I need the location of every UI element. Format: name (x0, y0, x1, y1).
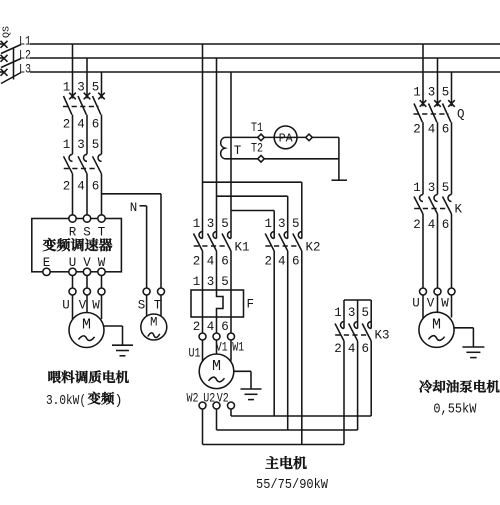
contactor K3 pin labels 2 4 6 (334, 342, 369, 356)
terminal labels U1 V1 W1 (189, 341, 245, 361)
svg-text:4: 4 (207, 255, 215, 269)
bus L2 (19, 49, 500, 63)
svg-text:V1: V1 (216, 341, 228, 355)
svg-text:W: W (441, 297, 449, 311)
svg-text:4: 4 (428, 218, 436, 232)
svg-text:1: 1 (63, 138, 71, 152)
svg-text:R: R (69, 226, 77, 240)
svg-text:W: W (92, 299, 100, 313)
caption 0,55kW (433, 402, 477, 417)
svg-text:6: 6 (221, 255, 229, 269)
svg-text:1: 1 (193, 217, 201, 231)
svg-text:2: 2 (193, 255, 201, 269)
motor terminal circles U V W (69, 288, 105, 295)
svg-text:V: V (427, 297, 435, 311)
svg-text:1: 1 (413, 86, 421, 100)
svg-text:T: T (234, 144, 242, 158)
breaker QF pin labels 2 4 6 (63, 118, 100, 132)
contactor K3 (star) (335, 322, 371, 342)
svg-text:F: F (247, 298, 255, 312)
svg-text:3: 3 (428, 86, 436, 100)
wires: terminals to motor M1 (73, 295, 102, 320)
contactor K2 pin labels 2 4 6 (264, 255, 299, 269)
wire: K2-6 down to W2 line (301, 251, 303, 445)
wires: F to motor terminals (203, 317, 232, 333)
contactor K pin labels 1 3 5 (413, 181, 449, 195)
svg-text:U: U (412, 297, 420, 311)
svg-text:3: 3 (77, 138, 85, 152)
wires: buses to breaker QF (73, 44, 102, 99)
wire: L1 jumper to K2 pole 5 (203, 182, 302, 238)
CT earth bar (332, 137, 348, 180)
svg-text:55/75/90kW: 55/75/90kW (256, 478, 329, 493)
wires: K3 outputs down (344, 341, 371, 445)
contactor K1 pin labels 1 3 5 (193, 217, 229, 231)
svg-text:6: 6 (442, 218, 450, 232)
svg-text:N: N (130, 201, 138, 215)
main motor M3 (199, 354, 234, 389)
svg-text:L2: L2 (19, 49, 31, 63)
svg-text:3: 3 (428, 181, 436, 195)
svg-text:5: 5 (442, 86, 450, 100)
terminal labels U V W (62, 299, 100, 313)
svg-text:K1: K1 (235, 241, 250, 255)
contactor pin labels 1 3 5 (63, 138, 100, 152)
wires: terminals U1 V1 W1 to motor M3 (203, 340, 232, 361)
svg-text:U: U (62, 299, 70, 313)
svg-text:6: 6 (361, 342, 369, 356)
svg-text:2: 2 (264, 255, 272, 269)
svg-text:PA: PA (279, 131, 294, 145)
svg-text:S: S (138, 299, 146, 313)
terminal T1 (251, 121, 264, 141)
ammeter PA (274, 126, 297, 149)
wires: S T to motor M2 (147, 295, 161, 317)
terminal labels U V W (pump) (412, 297, 449, 311)
svg-text:S: S (83, 226, 91, 240)
caption 3.0kW(变频) (46, 392, 123, 409)
VFD box U1 (变频调速器) with terminals R S T / E U V W (32, 215, 122, 276)
svg-text:5: 5 (221, 275, 229, 289)
svg-text:2: 2 (63, 180, 71, 194)
circuit breaker Q (pump feeder) (414, 100, 455, 122)
svg-text:5: 5 (92, 81, 100, 95)
wires: VFD outputs to motor terminals (73, 275, 102, 288)
circuit breaker QF (VFD feeder) (63, 93, 105, 115)
pump motor terminal circles U V W (420, 288, 456, 295)
svg-text:K3: K3 (375, 329, 390, 343)
svg-text:T1: T1 (251, 121, 263, 135)
svg-text:0,55kW: 0,55kW (433, 402, 477, 417)
svg-text:M: M (212, 358, 221, 375)
terminal T2 (251, 142, 264, 163)
svg-text:2: 2 (413, 123, 421, 137)
ground for main motor M3 (234, 371, 262, 399)
thermal relay F pin labels 1 3 5 (193, 275, 229, 289)
svg-text:6: 6 (292, 255, 300, 269)
svg-text:6: 6 (92, 180, 100, 194)
svg-text:1: 1 (334, 306, 342, 320)
svg-text:6: 6 (221, 320, 229, 334)
wires: CT secondary leads T1 T2 (225, 137, 339, 158)
current transformer T (221, 137, 242, 158)
wires: terminals to pump motor (423, 295, 452, 319)
svg-text:5: 5 (361, 306, 369, 320)
svg-text:3: 3 (207, 217, 215, 231)
bus L1 (19, 35, 500, 49)
svg-text:4: 4 (278, 255, 286, 269)
svg-text:3: 3 (278, 217, 286, 231)
terminal labels W2 U2 V2 (187, 392, 229, 406)
contactor K2 pin labels 1 3 5 (264, 217, 299, 231)
contactor KM (VFD feeder) (64, 154, 102, 174)
svg-text:): ) (115, 394, 123, 409)
svg-text:3: 3 (77, 81, 85, 95)
svg-text:5: 5 (292, 217, 300, 231)
svg-text:1: 1 (63, 81, 71, 95)
svg-text:5: 5 (442, 181, 450, 195)
svg-text:4: 4 (207, 320, 215, 334)
wires: K1 to thermal relay F (203, 251, 232, 290)
terminal (PA output) (306, 134, 313, 141)
svg-text:4: 4 (428, 123, 436, 137)
svg-text:T: T (98, 226, 106, 240)
wire: V2 to K2-2 and K3-6 (231, 409, 371, 416)
svg-text:4: 4 (77, 180, 85, 194)
wires: buses to contactor K1 (main motor feed) (203, 44, 232, 239)
caption 冷却油泵电机 (419, 380, 499, 393)
pump motor M4 (419, 312, 454, 347)
svg-text:2: 2 (63, 118, 71, 132)
wires: buses to breaker Q (423, 44, 452, 106)
svg-text:3.0kW(: 3.0kW( (46, 394, 86, 409)
terminals S T of control motor (138, 288, 165, 313)
main motor terminal circles W2 U2 V2 (199, 402, 235, 409)
svg-text:1: 1 (264, 217, 272, 231)
svg-text:2: 2 (413, 218, 421, 232)
caption 55/75/90kW (256, 478, 329, 493)
svg-text:3: 3 (348, 306, 356, 320)
breaker Q pin labels 1 3 5 (413, 86, 449, 100)
svg-text:W2: W2 (187, 392, 199, 406)
wire: K2-2 down to V2 line (273, 251, 275, 416)
wires: Q to contactor K (423, 122, 452, 194)
svg-text:K: K (455, 203, 463, 217)
thermal relay F pin labels 2 4 6 (193, 320, 229, 334)
caption 喂料调质电机 (48, 370, 128, 383)
svg-text:L3: L3 (19, 63, 31, 77)
svg-text:1: 1 (193, 275, 201, 289)
svg-text:5: 5 (221, 217, 229, 231)
svg-text:4: 4 (77, 118, 85, 132)
wires: contactor K to pump terminals (423, 214, 452, 288)
wire: K2-4 down to U2 line (287, 251, 289, 430)
svg-text:2: 2 (334, 342, 342, 356)
svg-text:V: V (79, 299, 87, 313)
wire: phase T tap to terminal T (102, 194, 162, 288)
wire: L3 jumper to K2 pole 1 (231, 211, 274, 239)
caption 主电机 (266, 456, 307, 469)
main motor terminal circles U1 V1 W1 (199, 333, 235, 340)
ground for pump motor (454, 328, 484, 358)
svg-text:2: 2 (193, 320, 201, 334)
svg-text:5: 5 (92, 138, 100, 152)
contactor K3 pin labels 1 3 5 (334, 306, 369, 320)
contactor K1 pin labels 2 4 6 (193, 255, 229, 269)
svg-text:K2: K2 (306, 241, 321, 255)
contactor K (pump) (414, 195, 452, 215)
ground for motor M1 (104, 326, 133, 356)
wires: QF to contactor (73, 115, 102, 155)
contactor pin labels 2 4 6 (63, 180, 100, 194)
contactor K2 (delta) (265, 232, 302, 252)
wire: W2 to K2-6 and K3-2 (203, 409, 345, 445)
contactor K pin labels 2 4 6 (413, 218, 449, 232)
svg-text:1: 1 (413, 181, 421, 195)
svg-text:T2: T2 (251, 142, 263, 156)
motor M2 (cooling fan) (141, 314, 167, 340)
contactor K1 (main run) (194, 232, 232, 252)
node N and wire to terminal S (130, 201, 147, 288)
svg-text:6: 6 (442, 123, 450, 137)
svg-text:Q: Q (457, 108, 465, 122)
star-point bus and wires to K3 (344, 300, 371, 329)
wire: L2 jumper to K2 pole 3 (217, 196, 288, 238)
svg-text:L1: L1 (19, 35, 31, 49)
svg-text:3: 3 (207, 275, 215, 289)
wire: U2 to K2-4 and K3-4 (217, 409, 358, 430)
svg-text:U1: U1 (189, 347, 201, 361)
svg-text:6: 6 (92, 118, 100, 132)
svg-text:QS: QS (2, 26, 12, 38)
wires: contactor to VFD inputs R S T (73, 174, 102, 215)
svg-text:W1: W1 (232, 341, 244, 355)
svg-text:4: 4 (348, 342, 356, 356)
svg-text:M: M (432, 316, 441, 333)
svg-text:M: M (150, 316, 158, 330)
bus L3 (19, 63, 500, 77)
breaker Q pin labels 2 4 6 (413, 123, 449, 137)
disconnect switch QS (0, 26, 21, 84)
svg-text:M: M (82, 317, 91, 334)
breaker QF pin labels 1 3 5 (63, 81, 100, 95)
thermal overload relay F (191, 290, 254, 317)
motor M1 (feed conditioner motor) (69, 313, 104, 348)
